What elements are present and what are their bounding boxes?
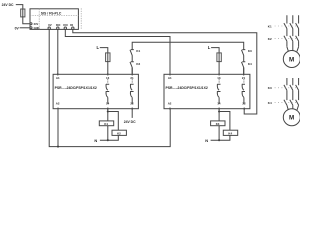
wire fuse to pin 13 PSR2 bbox=[218, 62, 220, 75]
svg-text:A1: A1 bbox=[56, 76, 60, 80]
svg-text:A2: A2 bbox=[56, 102, 60, 106]
contact K4 main poles bbox=[284, 100, 299, 105]
wire branch to K4 coil block2 bbox=[219, 112, 230, 131]
pin 22 PSR2 bbox=[243, 108, 245, 110]
svg-text:DO: DO bbox=[63, 23, 68, 27]
junction K3 bottom on N line bbox=[218, 139, 220, 141]
wire K2 coil to N rail bbox=[100, 135, 118, 140]
motor M2 bbox=[283, 109, 300, 126]
contact K3 NC aux block2 bbox=[242, 50, 246, 62]
pin 13 PSR2 bbox=[218, 73, 220, 75]
pin A2 PSR2 bbox=[169, 108, 171, 110]
internal contact 13-14 PSR2 bbox=[218, 79, 220, 83]
pin A2 PSR1 bbox=[57, 108, 59, 110]
wire 0V to GND terminal bbox=[20, 27, 30, 29]
svg-text:A2: A2 bbox=[168, 102, 172, 106]
pin A1 PSR2 bbox=[169, 73, 171, 75]
svg-text:K1: K1 bbox=[268, 24, 272, 28]
junction K1 bottom on rail bbox=[107, 139, 109, 141]
PLC dashed separator bbox=[30, 15, 78, 17]
wire DO2 to A1 PSR2 bbox=[65, 29, 170, 74]
svg-text:GND: GND bbox=[34, 26, 40, 30]
motor branch 1 phase lines bbox=[287, 15, 299, 50]
wire N line block2 to K4 coil bbox=[211, 135, 230, 140]
wire L to fuse block2 bbox=[211, 48, 219, 54]
terminal GND circle bbox=[30, 27, 32, 29]
svg-text:M: M bbox=[289, 56, 294, 63]
motor branch 2 phase lines bbox=[287, 78, 299, 109]
wire DI feedback return from 22 PSR2 bbox=[73, 29, 257, 114]
wire 0V rail to A2 PSR2 bbox=[49, 29, 170, 146]
svg-text:DO: DO bbox=[56, 23, 61, 27]
motor M1 bbox=[283, 51, 300, 68]
svg-text:K4: K4 bbox=[228, 131, 232, 135]
internal contact 21-22 PSR2 bbox=[243, 79, 245, 83]
wire 22 PSR1 to 24VDC stub bbox=[131, 109, 133, 118]
svg-text:A1: A1 bbox=[168, 76, 172, 80]
svg-text:24V: 24V bbox=[34, 22, 39, 26]
coil K4 bbox=[223, 130, 237, 135]
pin 14 PSR2 bbox=[218, 108, 220, 110]
wire fuse to +24V terminal bbox=[23, 17, 30, 24]
svg-text:K3: K3 bbox=[268, 86, 272, 90]
svg-text:K3: K3 bbox=[248, 49, 252, 53]
contact K2 NC aux block1 bbox=[130, 62, 134, 73]
svg-text:K4: K4 bbox=[268, 101, 272, 105]
fuse F2 block1 bbox=[106, 53, 110, 62]
pin 13 PSR1 bbox=[107, 73, 109, 75]
svg-text:K2: K2 bbox=[117, 131, 121, 135]
junction A2 PSR1 on rail bbox=[57, 109, 59, 147]
coil K2 bbox=[112, 130, 126, 135]
wire feedback chain top rail bbox=[132, 42, 244, 49]
svg-text:L: L bbox=[97, 45, 100, 50]
coil K3 bbox=[211, 121, 225, 126]
svg-text:PSR-...-24DC/FSP/1X1/1X2: PSR-...-24DC/FSP/1X1/1X2 bbox=[55, 86, 97, 90]
contact K4 NC aux block2 bbox=[242, 62, 246, 73]
relay PSR2 box bbox=[164, 74, 250, 108]
wire K3 coil to N line bbox=[218, 126, 220, 141]
svg-text:SIS / FS-PLC: SIS / FS-PLC bbox=[41, 11, 62, 15]
pin 22 PSR1 bbox=[131, 108, 133, 110]
pin 21 PSR2 bbox=[243, 73, 245, 75]
coil K1 bbox=[99, 121, 113, 126]
wire K4 aux to pin 21 PSR2 bbox=[243, 68, 245, 75]
PLC box SIS/FS-PLC bbox=[30, 9, 78, 30]
contact K1 NC aux block1 bbox=[130, 50, 134, 62]
terminal 24V circle bbox=[30, 23, 32, 25]
wire fuse to pin 13 PSR1 bbox=[107, 62, 109, 75]
wire K2 aux to pin 21 PSR1 bbox=[131, 68, 133, 75]
PLC dashed partition bbox=[38, 9, 40, 30]
svg-text:K2: K2 bbox=[268, 37, 272, 41]
wire 14 PSR1 to K1 coil bbox=[107, 109, 109, 121]
wire 14 PSR2 to K3 coil bbox=[218, 109, 220, 121]
svg-text:L: L bbox=[208, 45, 211, 50]
wire branch to K2 coil block1 bbox=[108, 112, 119, 131]
svg-text:K1: K1 bbox=[136, 49, 140, 53]
svg-text:N: N bbox=[94, 138, 97, 143]
internal contact 13-14 PSR1 bbox=[107, 79, 109, 83]
svg-text:0V: 0V bbox=[15, 27, 20, 31]
pin 14 PSR1 bbox=[107, 108, 109, 110]
PLC dashed right edge bbox=[80, 8, 82, 29]
svg-text:K2: K2 bbox=[136, 62, 140, 66]
svg-text:24V DC: 24V DC bbox=[124, 120, 136, 124]
svg-text:K3: K3 bbox=[216, 122, 220, 126]
relay PSR1 box bbox=[53, 74, 138, 108]
junction 14 branch block2 bbox=[218, 110, 220, 112]
wire 24VDC feed to fuse F1 bbox=[16, 5, 23, 9]
wire DO1 to A1 PSR1 bbox=[57, 29, 59, 74]
svg-text:K4: K4 bbox=[248, 62, 252, 66]
fuse F3 block2 bbox=[217, 53, 221, 62]
svg-text:0V: 0V bbox=[48, 23, 52, 27]
contact K2 main poles bbox=[284, 36, 299, 41]
pin 21 PSR1 bbox=[131, 73, 133, 75]
svg-text:N: N bbox=[205, 138, 208, 143]
svg-text:PSR-...-24DC/FSP/1X1/1X2: PSR-...-24DC/FSP/1X1/1X2 bbox=[166, 86, 208, 90]
svg-text:24V DC: 24V DC bbox=[2, 3, 14, 7]
pin A1 PSR1 bbox=[57, 73, 59, 75]
wire L to fuse block1 bbox=[100, 48, 108, 54]
contact K1 main poles bbox=[284, 23, 299, 28]
contact K3 main poles bbox=[284, 85, 299, 90]
svg-text:DI: DI bbox=[70, 23, 73, 27]
wire K1 coil to N rail bbox=[107, 126, 109, 141]
fuse F1 bbox=[21, 9, 25, 17]
svg-text:K1: K1 bbox=[104, 122, 108, 126]
junction 14 branch block1 bbox=[107, 110, 109, 112]
internal contact 21-22 PSR1 bbox=[131, 79, 133, 83]
svg-text:M: M bbox=[289, 115, 294, 122]
